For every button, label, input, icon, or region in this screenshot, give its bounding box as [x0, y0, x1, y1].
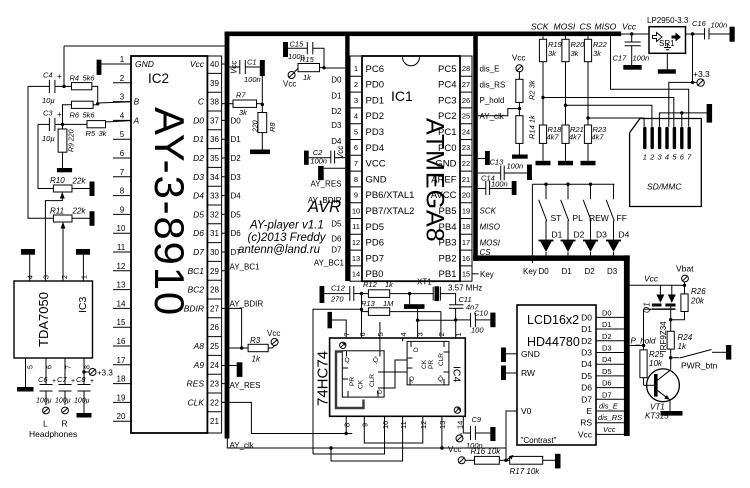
svg-text:AY-player v1.1: AY-player v1.1: [249, 220, 324, 232]
svg-text:C13: C13: [490, 158, 505, 167]
svg-text:MOSI: MOSI: [480, 238, 501, 247]
LCD internal pin names left: [521, 349, 540, 416]
svg-text:CLK: CLK: [187, 397, 204, 407]
IC1 notch: [403, 57, 420, 66]
svg-text:D0: D0: [231, 116, 242, 125]
transistor VT1 KT315: [644, 369, 680, 411]
svg-text:R14 1k: R14 1k: [528, 114, 537, 139]
svg-text:CS: CS: [480, 248, 492, 257]
node C17 tap: [630, 32, 633, 35]
svg-text:20k: 20k: [690, 297, 705, 306]
svg-text:7: 7: [66, 365, 73, 369]
svg-text:27: 27: [462, 80, 470, 89]
svg-text:Vcc: Vcc: [512, 54, 525, 63]
ground bar below IC3 pin5: [17, 387, 34, 392]
node rail taps: [544, 183, 547, 186]
svg-text:AY_clk: AY_clk: [230, 441, 255, 450]
svg-text:antenn@land.ru: antenn@land.ru: [238, 244, 321, 256]
svg-text:1: 1: [643, 153, 647, 162]
svg-text:MISO: MISO: [595, 22, 617, 32]
svg-text:6: 6: [354, 143, 358, 152]
svg-text:D1: D1: [581, 324, 592, 334]
speaker bar at IC3 pin1: [76, 249, 90, 281]
wire R15 to bus2: [324, 67, 345, 69]
display LCD16x2 HD44780: [517, 305, 596, 445]
svg-text:E: E: [586, 406, 592, 416]
IC1 right pin names: [431, 64, 457, 280]
svg-text:HD44780: HD44780: [527, 335, 580, 349]
svg-text:27: 27: [210, 304, 219, 313]
svg-text:C: C: [198, 97, 205, 107]
svg-text:4: 4: [399, 332, 408, 336]
svg-text:30: 30: [210, 248, 219, 257]
wire C1 to R7/R8 node: [261, 76, 263, 105]
resistor R8 220: [258, 105, 267, 150]
svg-text:Key: Key: [523, 267, 537, 276]
capacitor C9 100n: [471, 426, 491, 440]
svg-text:12: 12: [419, 421, 428, 429]
connector Vcc at R3: [271, 339, 278, 346]
svg-text:13: 13: [117, 281, 126, 290]
wire Vcc thin to LP2950: [621, 33, 649, 35]
svg-text:PR: PR: [349, 377, 356, 386]
wire AY_BDIR stub down to R3 node: [229, 308, 241, 348]
svg-text:Q̄: Q̄: [438, 375, 443, 383]
wire IC4 pin8 column: [345, 416, 347, 433]
svg-text:26: 26: [462, 96, 470, 105]
diode D4: [606, 240, 621, 256]
wire IC4 pin14 to C9: [463, 416, 470, 433]
svg-text:GND: GND: [135, 59, 154, 69]
svg-text:IC3: IC3: [77, 297, 89, 314]
capacitor C7 100u: [59, 358, 72, 405]
svg-text:R17 10k: R17 10k: [510, 467, 541, 476]
capacitor C1 100n: [229, 60, 259, 74]
svg-text:D4: D4: [331, 137, 342, 146]
wire pin1 column: [455, 320, 457, 338]
svg-text:IC2: IC2: [148, 71, 169, 86]
svg-text:C4: C4: [43, 71, 53, 80]
ground bar below R14: [512, 155, 528, 159]
svg-text:+3.3: +3.3: [97, 369, 113, 378]
potentiometer R10 22k: [53, 185, 89, 192]
svg-text:Vcc: Vcc: [267, 329, 280, 338]
svg-text:9: 9: [361, 423, 370, 427]
capacitor C4: [28, 80, 72, 93]
svg-text:PC3: PC3: [438, 95, 456, 106]
svg-text:D7: D7: [581, 394, 592, 404]
connector Vbat: [682, 275, 689, 285]
svg-text:CK: CK: [421, 359, 428, 369]
svg-text:D0: D0: [602, 308, 612, 317]
svg-text:IC4: IC4: [451, 366, 463, 383]
svg-text:AY_RES: AY_RES: [311, 180, 342, 189]
ground bar below R8: [250, 150, 270, 155]
svg-text:100n: 100n: [711, 21, 728, 30]
ground bar below R23: [581, 161, 596, 166]
svg-text:10µ: 10µ: [42, 134, 55, 143]
wire output down to +3.3: [692, 34, 694, 82]
svg-text:PB6/XTAL1: PB6/XTAL1: [366, 190, 415, 201]
node pin11 route to AY_clk line: [329, 446, 332, 449]
svg-text:C6: C6: [38, 375, 48, 384]
svg-text:D1: D1: [602, 320, 612, 329]
svg-text:PD4: PD4: [366, 143, 384, 154]
svg-text:D2: D2: [574, 229, 585, 239]
svg-text:D7: D7: [602, 390, 612, 399]
capacitor C12 270 with bar: [320, 286, 369, 303]
capacitor C3: [38, 118, 63, 131]
svg-text:REW: REW: [589, 213, 609, 223]
svg-text:Vcc: Vcc: [578, 429, 593, 439]
wire Vcc rail to Q1: [630, 284, 685, 286]
wire IC4 pin13 to AY_clk line: [441, 416, 443, 448]
resistor R16 10k: [465, 456, 510, 464]
svg-text:100µ: 100µ: [74, 398, 90, 405]
svg-text:1: 1: [82, 275, 89, 279]
svg-text:C7: C7: [57, 375, 67, 384]
svg-text:3k: 3k: [593, 49, 602, 58]
svg-text:1: 1: [120, 55, 125, 64]
svg-text:38: 38: [210, 98, 219, 107]
svg-text:4k7: 4k7: [547, 133, 560, 142]
svg-text:10: 10: [117, 224, 126, 233]
svg-text:74HC74: 74HC74: [315, 351, 332, 406]
svg-text:18: 18: [117, 375, 126, 384]
svg-text:D: D: [413, 347, 420, 352]
ground bar at IC1 Vcc pin7: [318, 166, 345, 180]
svg-text:R24: R24: [678, 333, 693, 342]
svg-text:XT1: XT1: [417, 278, 432, 287]
svg-text:R22: R22: [593, 40, 608, 49]
svg-text:3k: 3k: [548, 49, 557, 58]
potentiometer R11 22k: [53, 215, 89, 222]
svg-text:C10: C10: [474, 309, 489, 318]
svg-text:3: 3: [120, 93, 125, 102]
svg-text:1: 1: [454, 332, 463, 336]
wire SD ground rail pins 3,6: [659, 113, 706, 127]
svg-text:GND: GND: [366, 174, 387, 185]
wire AY_clk stub to R2/R14 node: [478, 109, 520, 116]
svg-text:11: 11: [399, 421, 408, 429]
svg-text:19: 19: [462, 206, 470, 215]
svg-text:PD6: PD6: [366, 238, 384, 249]
IC2 internal labels: [133, 59, 154, 125]
resistor R24 1k: [667, 320, 674, 370]
connector SD/MMC card: [630, 119, 702, 207]
svg-text:IRF9Z34: IRF9Z34: [659, 321, 668, 353]
wire vertical bus at LCD (bus7): [624, 255, 630, 436]
svg-text:5: 5: [672, 153, 677, 162]
svg-text:R8: R8: [268, 122, 277, 132]
svg-text:D3: D3: [596, 229, 607, 239]
bar terminal at IC4 pin7: [328, 312, 347, 338]
svg-text:R6: R6: [70, 111, 80, 120]
node R13 left: [360, 308, 363, 311]
svg-text:D3: D3: [581, 348, 592, 358]
svg-text:5: 5: [376, 332, 385, 336]
svg-text:220: 220: [252, 120, 259, 133]
svg-text:24: 24: [210, 361, 219, 370]
capacitor C13 100n: [478, 166, 527, 181]
svg-text:6: 6: [680, 153, 685, 162]
svg-text:C1: C1: [247, 58, 257, 67]
svg-text:MISO: MISO: [480, 223, 500, 232]
node P_hold/R25: [642, 344, 645, 347]
svg-text:A9: A9: [193, 360, 205, 370]
svg-text:PB7/XTAL2: PB7/XTAL2: [366, 206, 415, 217]
svg-text:TDA7050: TDA7050: [36, 292, 51, 347]
resistor R22 3k: [584, 36, 591, 125]
connector Vcc at pin14: [456, 433, 463, 442]
wire stubs from IC2 cells across bus: [222, 64, 230, 402]
capacitor C2 100n with bar: [304, 151, 345, 165]
svg-text:2: 2: [354, 80, 358, 89]
svg-text:2: 2: [62, 275, 69, 279]
svg-text:100n: 100n: [310, 157, 327, 166]
svg-text:R2 3k: R2 3k: [528, 79, 537, 100]
wire SCK to SD pin5: [543, 98, 674, 127]
svg-text:CS: CS: [580, 22, 592, 32]
svg-text:100µ: 100µ: [55, 398, 71, 405]
node R16/R17/V0: [504, 459, 507, 462]
svg-text:32: 32: [210, 210, 219, 219]
svg-text:C12: C12: [331, 284, 346, 293]
net labels on top bus: [531, 22, 637, 32]
crystal XT1 3.57 MHz: [433, 287, 455, 305]
svg-text:5k6: 5k6: [83, 74, 96, 83]
svg-text:4: 4: [28, 275, 35, 279]
ground bar at C9: [490, 427, 495, 441]
svg-text:Q̄: Q̄: [373, 356, 378, 364]
IC1 right pin numbers: [462, 64, 470, 278]
svg-text:D0: D0: [193, 115, 204, 125]
svg-text:R13: R13: [361, 299, 376, 308]
svg-text:R4: R4: [70, 74, 80, 83]
node C11/C10/pin1: [454, 318, 457, 321]
svg-text:D1: D1: [231, 135, 242, 144]
flip-flop FF1 inside IC4: [342, 351, 384, 397]
svg-text:AY_BC1: AY_BC1: [230, 263, 261, 272]
svg-text:100n: 100n: [633, 54, 650, 63]
ground bar below R21: [558, 161, 573, 166]
ground bar below C17: [623, 65, 641, 70]
wire horizontal bus to LCD (bus6): [473, 255, 630, 261]
svg-text:SD/MMC: SD/MMC: [647, 182, 682, 192]
svg-text:PL: PL: [573, 213, 584, 223]
svg-text:R10: R10: [50, 176, 65, 185]
IC4 bottom pin numbers: [343, 421, 465, 429]
svg-text:PWR_btn: PWR_btn: [681, 361, 718, 371]
svg-text:PD0: PD0: [366, 80, 384, 91]
wire MOSI to SD pin2: [566, 105, 652, 127]
svg-text:LP2950-3.3: LP2950-3.3: [647, 16, 689, 25]
svg-text:4k7: 4k7: [592, 133, 605, 142]
ground bar at LCD GND: [501, 348, 517, 363]
wire LP2950 output: [686, 33, 705, 35]
wire +3.3 to SD pin4: [669, 82, 693, 126]
IC3 top pin numbers: [28, 275, 89, 279]
svg-text:4: 4: [665, 153, 669, 162]
svg-text:dis_RS: dis_RS: [480, 80, 506, 89]
svg-text:VT1: VT1: [650, 403, 665, 412]
ground bar at C13: [527, 165, 532, 181]
svg-text:AY_clk: AY_clk: [480, 112, 505, 121]
svg-text:4k7: 4k7: [569, 133, 582, 142]
svg-text:16: 16: [462, 254, 470, 263]
svg-text:C9: C9: [472, 415, 482, 424]
svg-text:Vbat: Vbat: [676, 264, 694, 274]
wire IC4 pin9-pin12 route: [364, 416, 423, 443]
svg-text:PD3: PD3: [366, 127, 384, 138]
resistor R3 1k: [242, 344, 276, 351]
switch FF: [606, 184, 614, 239]
svg-text:P_hold: P_hold: [480, 96, 505, 105]
node R4/R6/pin3 junction: [96, 102, 99, 105]
svg-text:D3: D3: [602, 344, 612, 353]
wire pin2 column: [440, 312, 442, 338]
svg-text:11: 11: [352, 222, 360, 231]
svg-text:RW: RW: [521, 368, 535, 378]
svg-text:Q: Q: [345, 357, 350, 364]
svg-text:40: 40: [210, 60, 219, 69]
svg-text:AY_BC1: AY_BC1: [314, 259, 345, 268]
svg-text:Vcc: Vcc: [603, 425, 616, 434]
svg-text:A8: A8: [193, 341, 205, 351]
svg-text:+3.3: +3.3: [693, 69, 710, 79]
node C3/R9/R5 junction: [61, 123, 64, 126]
resistor R14 1k: [516, 116, 523, 155]
wire MISO to SD pin7: [611, 36, 689, 127]
svg-text:D2: D2: [231, 154, 242, 163]
bar terminal at pin22: [478, 151, 490, 165]
svg-text:34: 34: [210, 173, 219, 182]
node R2/R14: [518, 107, 521, 110]
svg-text:15: 15: [117, 318, 126, 327]
svg-text:5k6: 5k6: [83, 111, 96, 120]
svg-text:4: 4: [354, 112, 358, 121]
node R24/collector/switch: [669, 356, 672, 359]
svg-text:100n: 100n: [491, 180, 508, 189]
IC2 pin cell numbers 40-21: [210, 60, 219, 426]
svg-text:26: 26: [210, 323, 219, 332]
svg-text:C8: C8: [76, 375, 86, 384]
wire A8 row to R3: [229, 347, 241, 349]
svg-text:AY_BDIR: AY_BDIR: [230, 300, 264, 309]
ground bar at LCD RW: [501, 366, 517, 381]
ground bar below C8: [77, 413, 92, 418]
svg-text:24: 24: [462, 127, 470, 136]
svg-text:D4: D4: [581, 359, 592, 369]
svg-text:SCK: SCK: [480, 207, 497, 216]
svg-text:MOSI: MOSI: [554, 22, 576, 32]
ground bar below R9: [57, 168, 72, 172]
wire bus at IC1 right (bus3): [473, 32, 478, 261]
ground bar below VT1: [661, 411, 683, 416]
svg-text:5: 5: [354, 127, 358, 136]
wire IC4 pin10 route: [313, 416, 385, 454]
switch PL: [561, 184, 569, 239]
svg-text:Vcc: Vcc: [644, 274, 659, 284]
wire top-left Vcc feed: [64, 46, 225, 86]
connector headphone R: [62, 407, 69, 414]
svg-text:D4: D4: [231, 192, 242, 201]
svg-text:8: 8: [85, 365, 92, 369]
wire R13 node to left drop: [313, 309, 362, 454]
svg-text:5: 5: [28, 365, 35, 369]
capacitor C17 100n: [625, 34, 641, 65]
net labels left of bus2: [308, 76, 345, 268]
wire C3 left down to R10: [38, 124, 53, 188]
svg-text:36: 36: [210, 135, 219, 144]
svg-text:17: 17: [117, 356, 126, 365]
svg-text:7: 7: [687, 153, 692, 162]
svg-text:C17: C17: [613, 54, 628, 63]
speaker bar at IC3 pin4: [21, 249, 35, 281]
svg-text:D6: D6: [581, 383, 592, 393]
svg-text:AY_BDIR: AY_BDIR: [308, 196, 342, 205]
svg-text:C15: C15: [290, 40, 305, 49]
svg-text:R12: R12: [363, 280, 378, 289]
ground bar at R17: [555, 454, 561, 469]
SD pins 1-7: [643, 127, 691, 150]
IC4 top pin numbers: [343, 332, 463, 336]
svg-text:dis_E: dis_E: [480, 65, 500, 74]
svg-text:PD2: PD2: [366, 111, 384, 122]
svg-text:CLR: CLR: [438, 353, 445, 366]
svg-text:1M: 1M: [383, 299, 394, 308]
svg-text:R11: R11: [50, 207, 64, 216]
svg-text:14: 14: [117, 299, 126, 308]
wire button rail: [532, 184, 614, 263]
svg-text:D6: D6: [193, 228, 204, 238]
resistor R7 3k: [222, 100, 263, 107]
svg-text:28: 28: [210, 286, 219, 295]
capacitor C15 100n with bar: [283, 42, 324, 68]
svg-text:3k: 3k: [571, 49, 580, 58]
svg-text:D1: D1: [331, 91, 342, 100]
svg-text:SCK: SCK: [531, 22, 549, 32]
svg-text:D2: D2: [581, 336, 592, 346]
svg-text:20: 20: [117, 412, 126, 421]
connector +3.3: [693, 79, 705, 86]
svg-text:25: 25: [462, 112, 470, 121]
node R15/C15: [322, 66, 325, 69]
ground bar below R18: [536, 161, 551, 166]
svg-text:Vcc: Vcc: [283, 80, 296, 89]
svg-text:8: 8: [354, 175, 358, 184]
svg-text:4: 4: [120, 111, 125, 120]
svg-text:1k: 1k: [385, 280, 394, 289]
IC2 pin number cells: [207, 56, 221, 433]
svg-text:D0: D0: [331, 76, 342, 85]
switch ST: [539, 184, 547, 239]
connector at R16 left: [458, 457, 465, 464]
svg-text:R26: R26: [691, 287, 706, 296]
svg-text:7: 7: [120, 168, 125, 177]
svg-text:21: 21: [210, 417, 219, 426]
resistor R9 220: [58, 124, 67, 168]
svg-text:IC1: IC1: [391, 88, 413, 104]
svg-text:6: 6: [358, 332, 367, 336]
svg-text:6: 6: [47, 365, 54, 369]
LCD internal pin names right: [578, 312, 593, 439]
diode D3: [583, 240, 598, 256]
node +3.3: [691, 81, 694, 84]
svg-text:D3: D3: [193, 172, 204, 182]
svg-text:D2: D2: [602, 332, 612, 341]
node output: [691, 32, 694, 35]
